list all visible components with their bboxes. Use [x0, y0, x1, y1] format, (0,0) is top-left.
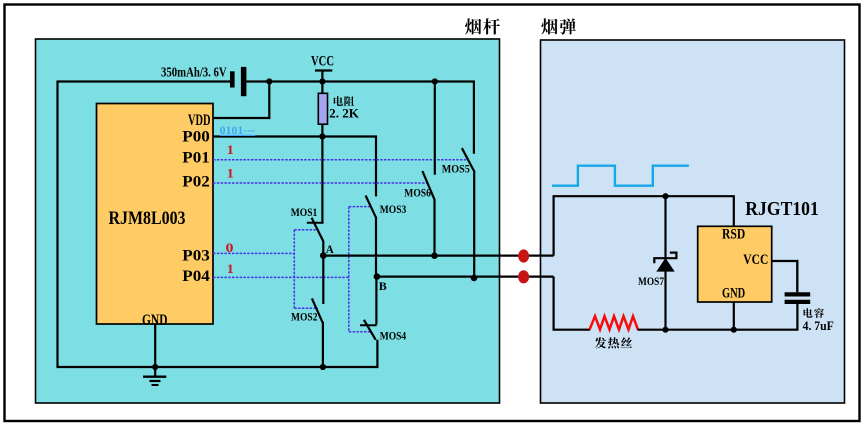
- wire: left vertical down to ground rail: [56, 81, 58, 368]
- connector pin A (red): [518, 249, 529, 262]
- junction MOS6/node A rail: [431, 252, 438, 259]
- wire: pod top rail: [554, 196, 734, 255]
- svg-text:RSD: RSD: [722, 227, 745, 243]
- cigarette-rod section box (cyan): [36, 39, 500, 403]
- wire: pod bottom rail right: [638, 302, 798, 330]
- junction MOS6/VCC rail: [432, 78, 438, 84]
- control net P03 (dashed): [213, 230, 318, 308]
- svg-text:B: B: [379, 279, 387, 293]
- wire: bottom ground rail: [57, 340, 378, 367]
- svg-text:4. 7uF: 4. 7uF: [803, 318, 834, 333]
- svg-text:VCC: VCC: [743, 252, 768, 268]
- control net P04 (dashed): [213, 207, 371, 332]
- wire: VDD branch: [213, 82, 269, 119]
- svg-text:A: A: [326, 242, 334, 256]
- svg-text:VCC: VCC: [311, 54, 334, 70]
- svg-text:0: 0: [226, 241, 234, 255]
- junction MOS7/bottom rail: [662, 327, 668, 333]
- svg-text:MOS4: MOS4: [380, 329, 407, 343]
- wire: VCC pin to capacitor: [772, 261, 798, 292]
- junction MOS7/top rail: [662, 193, 668, 199]
- heater coil (red zigzag): [590, 316, 639, 330]
- switch MOS4: [360, 277, 377, 340]
- battery B1 350mAh/3.6V: [230, 67, 246, 96]
- svg-text:1: 1: [227, 262, 234, 276]
- svg-text:P00: P00: [182, 129, 210, 146]
- svg-text:MOS7: MOS7: [638, 274, 664, 288]
- label DianRong (capacitor): [804, 308, 824, 318]
- wire: node B rail to pod connector: [377, 276, 554, 278]
- cigarette-pod section box (light blue): [541, 40, 845, 403]
- svg-text:P04: P04: [182, 268, 210, 285]
- control net P02 (dashed): [213, 182, 428, 184]
- ground symbol: [143, 324, 166, 385]
- chip U1 RJM8L003: [97, 104, 214, 325]
- junction VCC stem: [319, 78, 325, 84]
- label YanGan (rod): [465, 18, 500, 34]
- wire: node A rail to pod connector: [323, 255, 553, 257]
- svg-text:P02: P02: [182, 173, 210, 190]
- svg-text:P03: P03: [182, 248, 210, 265]
- chip U2 RJGT101: [698, 226, 772, 302]
- wire: pod bottom rail left: [554, 277, 591, 330]
- switch MOS2: [312, 256, 323, 367]
- svg-text:350mAh/3. 6V: 350mAh/3. 6V: [161, 65, 227, 80]
- wire: battery left rail: [58, 80, 231, 82]
- junction GND/ground rail: [152, 364, 158, 370]
- svg-text:RJGT101: RJGT101: [745, 199, 819, 220]
- control net P01 (dashed): [213, 159, 468, 161]
- svg-text:VDD: VDD: [188, 112, 211, 129]
- switch MOS6: [422, 82, 434, 256]
- resistor R1 2.2K body: [318, 93, 327, 124]
- svg-text:MOS3: MOS3: [380, 202, 407, 216]
- wire: resistor down through P00 node to MOS1: [321, 124, 323, 224]
- junction P00/resistor: [319, 133, 325, 139]
- diode MOS7: [654, 196, 676, 330]
- svg-text:1: 1: [227, 143, 234, 157]
- label DianZu (resistor): [334, 96, 355, 106]
- junction RJGT101 GND/bottom rail: [731, 327, 737, 333]
- svg-text:P01: P01: [182, 149, 210, 166]
- label YanDan (pod): [541, 18, 575, 34]
- switch MOS1: [307, 218, 324, 256]
- wire: VCC to resistor: [321, 82, 323, 94]
- junction MOS5/node B rail: [471, 275, 478, 282]
- wire: battery to VCC rail: [246, 80, 474, 82]
- connector pin B (red): [518, 270, 529, 283]
- junction MOS2/ground rail: [320, 364, 326, 370]
- PWM waveform: [552, 166, 689, 186]
- wire: RJGT101 GND to bottom rail: [733, 302, 735, 330]
- svg-text:MOS5: MOS5: [442, 162, 470, 176]
- svg-text:RJM8L003: RJM8L003: [109, 208, 186, 229]
- power symbol VCC: [311, 54, 334, 82]
- svg-text:1: 1: [227, 166, 234, 180]
- svg-text:GND: GND: [722, 286, 745, 302]
- junction battery/VDD: [266, 78, 272, 84]
- switch MOS3: [366, 196, 376, 278]
- svg-text:MOS2: MOS2: [291, 309, 318, 323]
- capacitor C1 4.7uF: [785, 294, 811, 302]
- wire: P00 net: [213, 137, 376, 197]
- node A junction: [320, 252, 327, 259]
- svg-text:2. 2K: 2. 2K: [329, 106, 360, 121]
- svg-text:MOS6: MOS6: [404, 186, 431, 200]
- label FaReSi (heater wire): [595, 337, 632, 348]
- node B junction: [374, 273, 381, 280]
- switch MOS5: [462, 81, 475, 278]
- svg-text:MOS1: MOS1: [291, 205, 318, 219]
